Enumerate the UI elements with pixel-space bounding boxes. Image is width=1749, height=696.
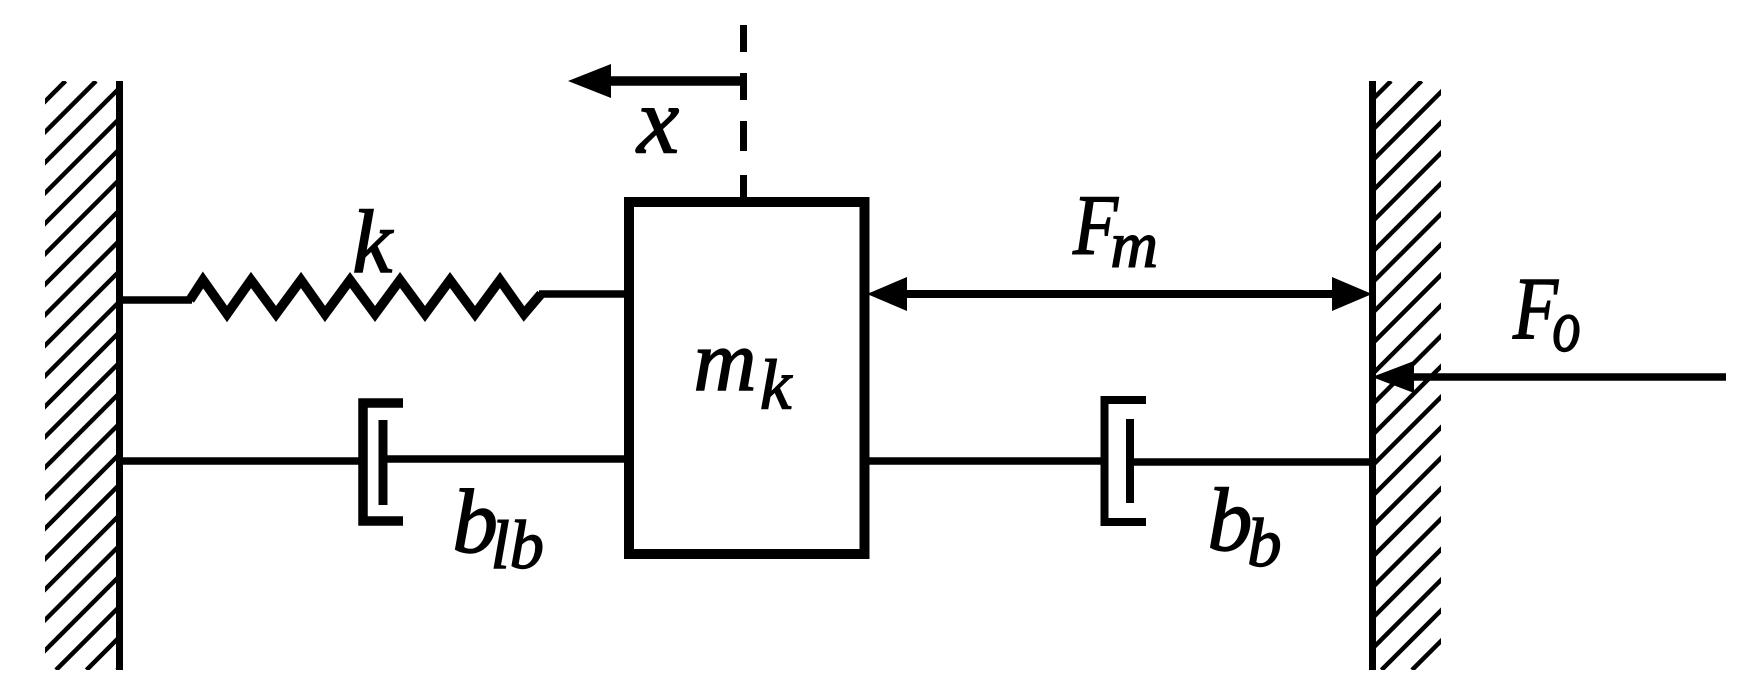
displacement dashed line — [740, 25, 747, 197]
right wall line — [1369, 81, 1376, 670]
svg-text:m: m — [694, 312, 757, 409]
spring k : zigzag coil — [190, 280, 541, 314]
svg-text:x: x — [635, 68, 679, 174]
mass box m_k — [629, 202, 865, 554]
damper b_lb : right wire — [383, 455, 629, 463]
damper b_b : right wire — [1130, 458, 1372, 466]
damper b_b : cylinder bracket — [1105, 400, 1147, 522]
spring k : left lead wire — [120, 296, 192, 304]
svg-text:m: m — [1110, 209, 1158, 282]
svg-text:b: b — [1207, 471, 1252, 570]
svg-text:b: b — [1247, 505, 1281, 581]
svg-text:o: o — [1552, 285, 1581, 368]
damper b_b : piston — [1126, 419, 1134, 503]
damper b_b : left wire — [865, 457, 1101, 465]
svg-text:k: k — [352, 193, 394, 292]
right wall hatching — [741, 81, 1749, 670]
damper b_lb : piston — [379, 420, 388, 505]
damper b_lb : cylinder bracket — [363, 403, 403, 521]
F_o arrow — [1407, 373, 1726, 381]
spring k : right lead wire — [539, 290, 629, 298]
left wall line — [116, 81, 123, 670]
svg-text:lb: lb — [491, 507, 544, 583]
x arrow — [607, 76, 747, 86]
left wall hatching — [0, 81, 737, 670]
F_m double arrow — [900, 290, 1339, 298]
damper b_lb : left wire — [120, 457, 367, 465]
svg-text:k: k — [760, 347, 793, 425]
